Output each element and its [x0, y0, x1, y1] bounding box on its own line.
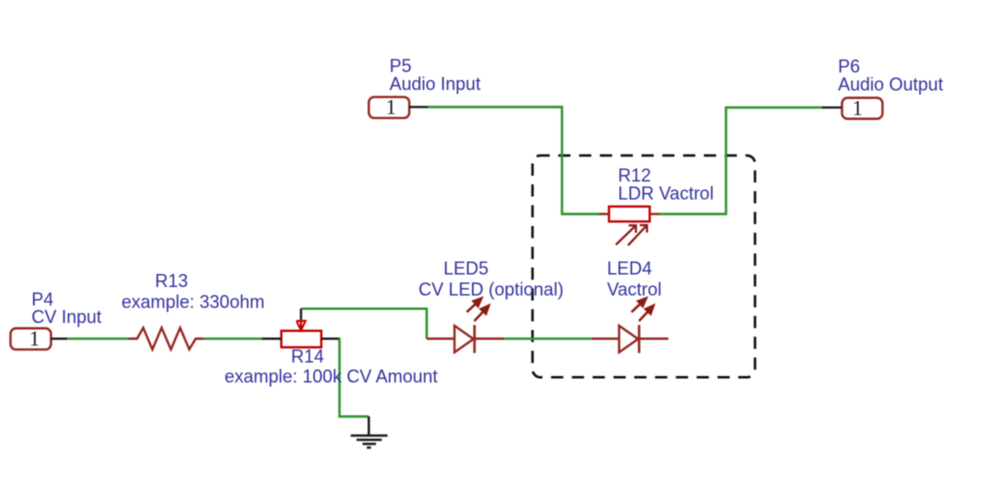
wire R12 right to P6 [659, 108, 823, 215]
svg-text:CV Input: CV Input [32, 307, 102, 327]
wire R14 wiper to LED5 anode [301, 309, 427, 339]
svg-text:1: 1 [29, 327, 40, 351]
wire R13 to R14 [203, 338, 263, 340]
resistor R12 LDR [600, 207, 660, 246]
connector P4 [11, 328, 68, 349]
svg-text:LDR Vactrol: LDR Vactrol [618, 184, 714, 204]
wire P4 to R13 [66, 338, 129, 340]
svg-text:example: 330ohm: example: 330ohm [122, 292, 265, 312]
svg-text:Audio Input: Audio Input [390, 74, 481, 94]
resistor R13 [129, 328, 204, 350]
svg-text:P5: P5 [390, 56, 412, 76]
LED5 CV LED [427, 298, 504, 353]
LED4 Vactrol LED [592, 298, 668, 353]
svg-text:R13: R13 [155, 271, 188, 291]
svg-text:CV LED (optional): CV LED (optional) [419, 280, 564, 300]
svg-text:Vactrol: Vactrol [607, 280, 662, 300]
wire LED5 cathode to LED4 anode [504, 338, 593, 340]
dashed vactrol enclosure box [533, 156, 756, 378]
wire P5 to R12 left [428, 107, 601, 214]
svg-text:1: 1 [852, 96, 863, 120]
ground symbol [351, 417, 388, 448]
svg-text:R12: R12 [618, 165, 651, 185]
svg-text:LED5: LED5 [444, 259, 489, 279]
wiper arrow of R14 [297, 320, 306, 331]
svg-text:P6: P6 [838, 56, 860, 76]
potentiometer R14 [262, 309, 339, 348]
svg-text:example: 100k CV Amount: example: 100k CV Amount [225, 367, 438, 387]
connector P6 [822, 98, 883, 119]
connector P5 [369, 97, 428, 118]
svg-text:1: 1 [386, 95, 397, 119]
svg-text:Audio Output: Audio Output [838, 75, 943, 95]
emission arrows of LED5 [467, 298, 489, 321]
emission arrows of LED4 [632, 298, 654, 321]
light arrows of R12 [616, 225, 647, 245]
svg-text:R14: R14 [291, 347, 324, 367]
wire R14 bottom to ground [338, 339, 369, 417]
svg-text:LED4: LED4 [607, 259, 652, 279]
